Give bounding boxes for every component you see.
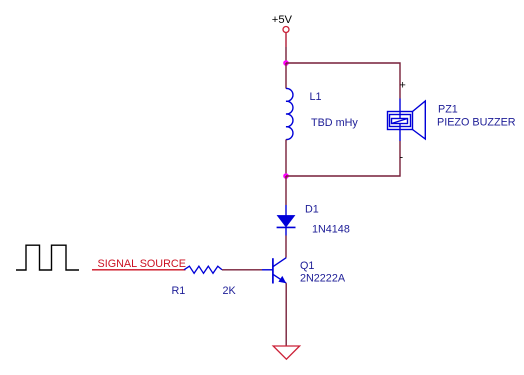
- piezo buzzer PZ1: [388, 99, 426, 142]
- wire: node A to inductor: [285, 63, 287, 89]
- transistor Q1: [262, 258, 286, 284]
- wire: inductor to node B: [285, 140, 287, 177]
- svg-text:Q1: Q1: [300, 260, 314, 272]
- wire: signal source underline: [92, 269, 186, 271]
- svg-text:R1: R1: [172, 285, 186, 297]
- square wave signal symbol: [16, 245, 79, 270]
- svg-text:L1: L1: [310, 91, 322, 103]
- svg-text:2N2222A: 2N2222A: [300, 272, 346, 284]
- ground: [273, 346, 299, 359]
- junction node B: [283, 173, 289, 179]
- svg-text:-: -: [400, 152, 404, 164]
- svg-text:+: +: [400, 80, 406, 92]
- inductor L1: [286, 88, 293, 139]
- svg-text:PZ1: PZ1: [438, 104, 458, 116]
- wire: emitter to ground: [285, 283, 287, 346]
- svg-text:SIGNAL SOURCE: SIGNAL SOURCE: [98, 258, 186, 270]
- wire: resistor to base: [222, 269, 262, 271]
- svg-text:PIEZO BUZZER: PIEZO BUZZER: [437, 116, 516, 128]
- wire: buzzer bottom to node B: [286, 141, 400, 176]
- wire: node B to diode D1: [285, 176, 287, 205]
- svg-text:1N4148: 1N4148: [312, 223, 350, 235]
- resistor R1: [184, 266, 222, 273]
- svg-text:D1: D1: [305, 204, 319, 216]
- svg-text:+5V: +5V: [272, 14, 293, 26]
- wire: diode to transistor collector: [285, 236, 287, 258]
- wire: +5V to node A: [285, 47, 287, 63]
- diode D1: [277, 205, 296, 236]
- svg-text:TBD mHy: TBD mHy: [311, 117, 358, 129]
- junction node A: [283, 60, 289, 66]
- svg-text:2K: 2K: [223, 285, 237, 297]
- wire: node A to buzzer top: [286, 63, 400, 99]
- power symbol +5V: [272, 14, 293, 47]
